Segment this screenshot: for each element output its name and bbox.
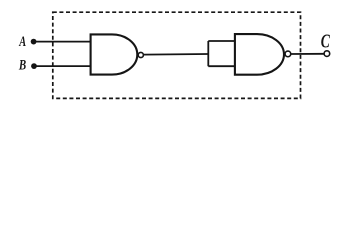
svg-text:C: C — [321, 30, 330, 52]
svg-text:B: B — [18, 57, 26, 73]
svg-text:A: A — [18, 32, 26, 50]
